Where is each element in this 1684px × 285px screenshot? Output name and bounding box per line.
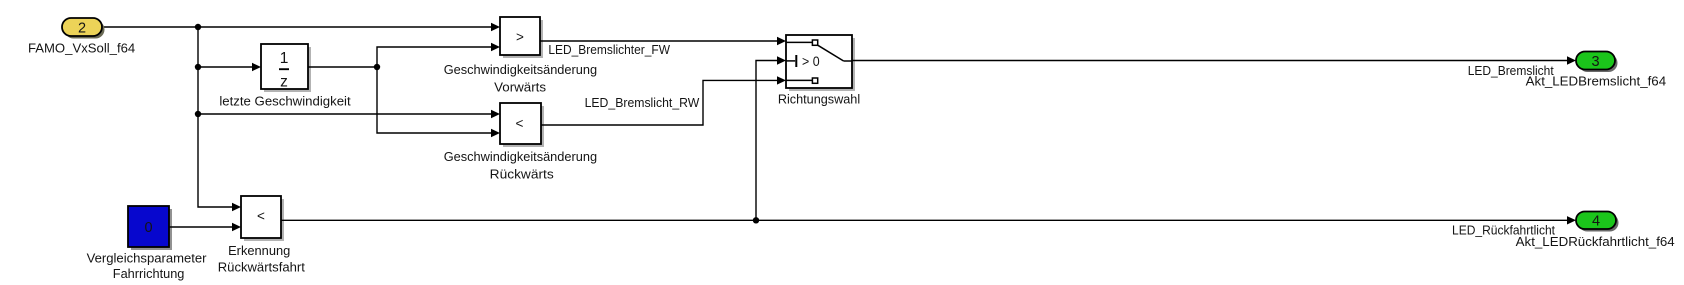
- label Akt_LEDBremslicht_f64: [1526, 74, 1666, 89]
- unit delay block 1/z (letzte Geschwindigkeit): [261, 44, 311, 92]
- relational operator block < (Geschwindigkeitsaenderung Rueckwaerts): [500, 103, 544, 147]
- label LED_Bremslichter_FW: [548, 43, 670, 57]
- svg-text:3: 3: [1591, 54, 1599, 70]
- svg-text:Richtungswahl: Richtungswahl: [778, 91, 860, 106]
- node junction at (756,220): [753, 217, 759, 223]
- label FAMO_VxSoll_f64: [28, 40, 135, 55]
- constant block 0 (Vergleichsparameter Fahrrichtung): [128, 206, 172, 250]
- label Richtungswahl: [778, 91, 860, 106]
- wire from inport 2 to greater-than block input 1: [102, 23, 500, 31]
- wire switch output to outport 3: [852, 56, 1576, 64]
- wire vertical trunk x=198 down to Erkennung input 1: [198, 27, 241, 211]
- wire y=114 to less-than (Geschw. Rueckwaerts) input 1: [198, 110, 500, 118]
- label Erkennung Rueckwaertsfahrt: [218, 243, 305, 275]
- svg-text:0: 0: [144, 220, 152, 236]
- inport 2 FAMO_VxSoll_f64: [62, 18, 105, 39]
- label LED_Bremslicht: [1468, 64, 1554, 78]
- wire constant output to Erkennung input 2: [169, 223, 241, 231]
- svg-text:4: 4: [1592, 213, 1600, 229]
- svg-text:LED_Bremslicht_RW: LED_Bremslicht_RW: [585, 96, 700, 110]
- svg-text:Vorwärts: Vorwärts: [494, 80, 546, 95]
- node junction at (377,67): [374, 64, 380, 70]
- wire junction up to switch input 2 (control): [756, 56, 786, 220]
- wire greater-than output to switch input 1 (LED_Bremslichter_FW): [540, 37, 786, 45]
- svg-text:<: <: [516, 116, 524, 131]
- label LED_Bremslicht_RW: [585, 96, 700, 110]
- label Akt_LEDRueckfahrtlicht_f64: [1516, 234, 1675, 249]
- svg-text:Akt_LEDBremslicht_f64: Akt_LEDBremslicht_f64: [1526, 74, 1666, 89]
- svg-text:letzte Geschwindigkeit: letzte Geschwindigkeit: [219, 93, 351, 108]
- label LED_Rueckfahrtlicht: [1452, 224, 1555, 238]
- svg-text:Vergleichsparameter: Vergleichsparameter: [87, 251, 207, 266]
- svg-text:Fahrrichtung: Fahrrichtung: [113, 266, 185, 281]
- wire junction down to less-than input 2: [377, 67, 500, 137]
- svg-text:Geschwindigkeitsänderung: Geschwindigkeitsänderung: [444, 62, 597, 77]
- node junction at (198,67): [195, 64, 201, 70]
- svg-text:Geschwindigkeitsänderung: Geschwindigkeitsänderung: [444, 149, 597, 164]
- node junction at (198,27): [195, 24, 201, 30]
- label letzte Geschwindigkeit: [219, 93, 351, 108]
- svg-text:<: <: [257, 208, 265, 223]
- svg-text:LED_Bremslichter_FW: LED_Bremslichter_FW: [548, 43, 670, 57]
- outport 3 Akt_LEDBremslicht_f64: [1576, 52, 1618, 73]
- outport 4 Akt_LEDRueckfahrtlicht_f64: [1576, 212, 1619, 232]
- svg-text:> 0: > 0: [802, 53, 820, 69]
- svg-text:Akt_LEDRückfahrtlicht_f64: Akt_LEDRückfahrtlicht_f64: [1516, 234, 1675, 249]
- relational operator block > (Geschwindigkeitsaenderung Vorwaerts): [500, 17, 543, 58]
- svg-text:>: >: [516, 29, 524, 44]
- wire to unit delay input: [198, 63, 261, 71]
- node junction at (198,114): [195, 111, 201, 117]
- label Vergleichsparameter Fahrrichtung: [87, 251, 207, 281]
- label Geschwindigkeitsaenderung Rueckwaerts: [444, 149, 597, 182]
- svg-text:Erkennung: Erkennung: [228, 243, 290, 258]
- wire less-than output up to switch input 3 (LED_Bremslicht_RW): [541, 76, 786, 125]
- label Geschwindigkeitsaenderung Vorwaerts: [444, 62, 597, 95]
- svg-text:Rückwärts: Rückwärts: [490, 167, 554, 182]
- svg-text:2: 2: [78, 20, 86, 36]
- svg-text:1: 1: [280, 50, 289, 67]
- wire Erkennung output to outport 4 (long run y=220): [281, 216, 1576, 224]
- svg-text:Rückwärtsfahrt: Rückwärtsfahrt: [218, 260, 305, 275]
- wire unit delay output to junction: [308, 66, 377, 68]
- svg-text:FAMO_VxSoll_f64: FAMO_VxSoll_f64: [28, 40, 135, 55]
- svg-text:z: z: [280, 74, 288, 91]
- wire junction up to greater-than input 2: [377, 43, 500, 67]
- switch block Richtungswahl: [786, 35, 855, 91]
- relational operator block < (Erkennung Rueckwaertsfahrt): [241, 196, 284, 241]
